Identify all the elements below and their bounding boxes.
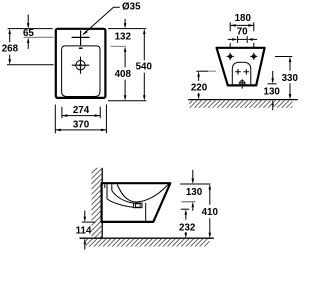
- dim 232: dimension line: [185, 209, 188, 215]
- bowl shell upper line: [112, 191, 134, 204]
- dim 540: dimension line: [143, 29, 146, 34]
- drain housing arch: [232, 62, 251, 84]
- dim 268: bottom extension line (drain level): [7, 64, 54, 66]
- dim 65: top extension line: [8, 28, 53, 30]
- floor line (side view): [80, 237, 214, 239]
- dim 70: dimension line with outside arrows: [228, 38, 257, 40]
- floor line (back view): [188, 99, 298, 101]
- svg-text:65: 65: [23, 28, 34, 39]
- deck hole lines: [105, 184, 112, 198]
- waste outlet: [239, 79, 246, 88]
- dim 130 (side): upper arrow: [192, 170, 194, 179]
- dim 268: dimension line: [8, 29, 11, 34]
- dim 114: upper arrow: [84, 211, 86, 217]
- dim 70: extension ticks: [238, 36, 248, 43]
- svg-text:540: 540: [136, 62, 153, 73]
- leader arrowhead: [83, 30, 88, 35]
- dim 232: top line: [181, 208, 190, 210]
- dim 180: dimension line: [230, 24, 254, 26]
- svg-text:220: 220: [191, 82, 208, 93]
- dim 132: upper arrow: [124, 19, 126, 24]
- dim 130 (side): rim extension line: [180, 183, 211, 185]
- dim 130 (back): upper arrow: [272, 71, 274, 79]
- bidet outer rim (plan): [56, 29, 106, 98]
- dim 330: top extension line (fixing hole level): [275, 56, 292, 58]
- svg-text:114: 114: [76, 226, 92, 237]
- right fixing hole: [250, 53, 257, 60]
- left supply hole cross: [235, 69, 241, 75]
- dim 114: lower arrow: [84, 238, 87, 244]
- faucet hole cross: [72, 31, 90, 46]
- dim 65: upper arrow: [27, 15, 29, 24]
- waste pipe line: [145, 203, 147, 222]
- svg-text:408: 408: [115, 69, 132, 80]
- svg-text:70: 70: [237, 27, 248, 38]
- dim 220: dimension line: [197, 71, 200, 77]
- dim 408: arrows and line: [124, 46, 127, 52]
- dim 274: extension ticks: [62, 107, 100, 118]
- floor hatching (back view): [185, 100, 298, 108]
- svg-text:330: 330: [282, 73, 299, 84]
- dim 130 (side): lower gray line: [182, 201, 196, 203]
- dim 130 (back): lower arrow below floor: [271, 100, 274, 106]
- water inlet mark: [79, 48, 83, 50]
- dim 132: bowl-top gray line: [111, 45, 127, 47]
- bowl shell lower line: [107, 199, 134, 208]
- bidet body (back): [217, 48, 265, 86]
- bidet bowl (plan): [62, 46, 100, 97]
- svg-text:130: 130: [264, 87, 281, 98]
- dim 330: dimension line: [289, 57, 292, 63]
- svg-text:274: 274: [73, 105, 90, 116]
- svg-text:268: 268: [2, 43, 19, 54]
- dim 540: bottom extension line: [108, 100, 146, 102]
- bidet body (side profile): [102, 183, 171, 222]
- dim 410: dimension line: [209, 184, 212, 190]
- dim 370: dimension line: [55, 129, 106, 131]
- wall line: [101, 168, 103, 238]
- svg-text:Ø35: Ø35: [122, 2, 141, 13]
- left fixing hole: [227, 53, 234, 60]
- svg-text:132: 132: [115, 32, 132, 43]
- svg-text:232: 232: [179, 223, 196, 234]
- waste fitting box: [134, 203, 142, 208]
- dim 130 (side): lower arrow: [192, 202, 195, 208]
- drain target symbol: [72, 57, 89, 74]
- dim 114: top extension line: [82, 221, 96, 223]
- leader line O35: [83, 7, 120, 34]
- dim 132/408/540: top extension line: [108, 28, 146, 30]
- dim 65: lower arrow: [27, 37, 30, 43]
- dim 370: extension lines: [55, 105, 106, 134]
- dim 130 (back): extension line (waste level): [268, 83, 277, 85]
- right supply hole cross: [244, 69, 250, 75]
- svg-text:370: 370: [73, 120, 90, 131]
- bowl inner curve: [117, 183, 169, 202]
- dim 274: dimension line: [62, 115, 100, 117]
- dim 220: extension line (supply level): [196, 70, 208, 72]
- floor hatching (side view): [80, 239, 212, 247]
- svg-text:130: 130: [186, 187, 203, 198]
- dim 65: faucet level gray line: [24, 36, 54, 38]
- dim 180: extension ticks: [230, 22, 254, 47]
- wall hatching: [91, 163, 102, 247]
- svg-text:410: 410: [202, 207, 219, 218]
- svg-text:180: 180: [235, 13, 252, 24]
